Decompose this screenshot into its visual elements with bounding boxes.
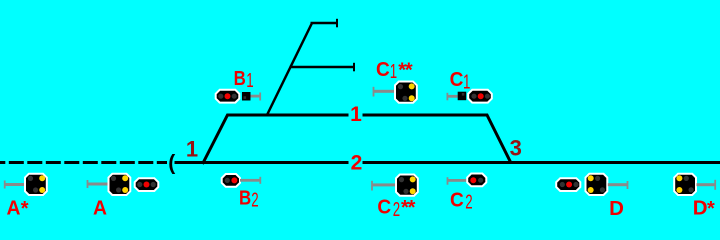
svg-text:*: * [21,198,29,220]
svg-text:1: 1 [390,61,397,83]
svg-text:*: * [408,197,416,219]
svg-text:1: 1 [186,136,198,161]
svg-text:(: ( [168,151,175,174]
svg-text:C: C [450,69,464,91]
svg-text:*: * [707,198,715,220]
svg-text:3: 3 [510,136,522,161]
svg-text:2: 2 [251,190,258,212]
svg-text:2: 2 [465,192,472,214]
svg-text:D: D [693,198,708,220]
svg-text:D: D [609,198,624,220]
svg-text:*: * [405,59,413,81]
svg-text:2: 2 [393,199,400,220]
svg-text:1: 1 [463,71,470,93]
svg-text:1: 1 [350,103,362,126]
svg-text:B: B [234,68,246,90]
svg-text:1: 1 [246,70,253,92]
svg-text:A: A [7,198,21,220]
svg-text:C: C [377,197,391,219]
svg-text:C: C [450,190,464,212]
svg-text:C: C [376,59,390,81]
svg-text:2: 2 [351,152,363,175]
svg-text:A: A [93,198,107,220]
svg-text:B: B [239,188,251,210]
